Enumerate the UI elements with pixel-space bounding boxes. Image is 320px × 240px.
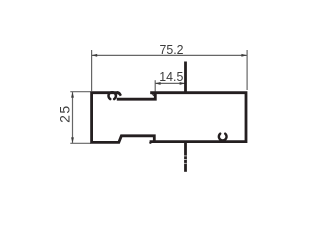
dimension 75.2 arrow right [241, 54, 247, 57]
profile outline: top step and inner top line [117, 93, 156, 99]
dimension 14.5 arrow right [180, 82, 186, 85]
screw boss tooth [117, 91, 122, 96]
screw boss ring top (open bottom) [108, 92, 115, 99]
dimension 25 line [72, 92, 74, 143]
profile top step barb [151, 94, 154, 96]
profile outline: body bottom, right edge, body top [150, 93, 246, 142]
panel bar lower nicks [184, 156, 187, 164]
dimension 25 extension line top [70, 91, 90, 93]
svg-text:14.5: 14.5 [159, 70, 183, 84]
dimension 25 extension line bottom [70, 142, 91, 144]
dimension 75.2 arrow left [92, 54, 98, 57]
dimension 14.5 extension line [154, 80, 156, 91]
panel bar lower [184, 141, 187, 172]
dimension 75.2 extension line right [246, 50, 248, 90]
dimension 75.2 line [92, 54, 248, 56]
svg-text:25: 25 [57, 104, 73, 123]
snap ring bottom (open top) [219, 134, 227, 141]
svg-text:75.2: 75.2 [159, 43, 183, 57]
dimension 25 arrow down [71, 137, 74, 143]
dimension 14.5 arrow left [155, 82, 161, 85]
dimension 25 arrow up [71, 92, 74, 98]
panel bar upper [184, 62, 187, 94]
dimension 75.2 extension line left [91, 50, 93, 91]
profile bottom step foot [149, 142, 151, 144]
profile outline: head top, left edge, head bottom, diagonal, mid bottom, step [92, 93, 155, 143]
dimension 14.5 line [155, 82, 185, 84]
